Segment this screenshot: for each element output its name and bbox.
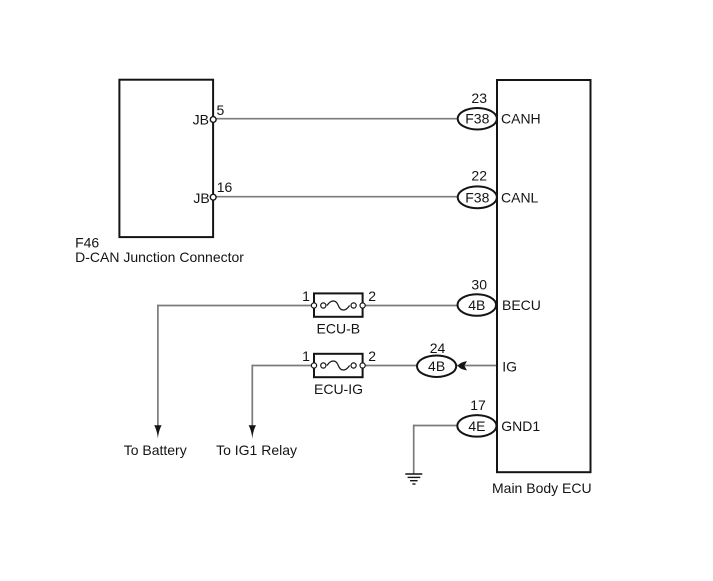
svg-text:F38: F38 <box>465 189 489 205</box>
svg-text:1: 1 <box>302 348 310 364</box>
svg-text:22: 22 <box>471 168 487 184</box>
svg-text:To Battery: To Battery <box>124 442 187 458</box>
svg-text:4B: 4B <box>428 358 445 374</box>
svg-text:Main Body ECU: Main Body ECU <box>492 480 592 496</box>
svg-text:IG: IG <box>502 358 517 374</box>
svg-text:To IG1 Relay: To IG1 Relay <box>216 442 297 458</box>
svg-text:4B: 4B <box>468 297 485 313</box>
svg-text:23: 23 <box>471 90 487 106</box>
svg-text:24: 24 <box>430 340 446 356</box>
svg-text:JB: JB <box>193 190 209 206</box>
svg-text:F38: F38 <box>465 111 489 127</box>
svg-text:16: 16 <box>217 179 233 195</box>
svg-text:BECU: BECU <box>502 297 541 313</box>
svg-text:2: 2 <box>368 288 376 304</box>
svg-text:ECU-IG: ECU-IG <box>314 381 363 397</box>
svg-text:2: 2 <box>368 348 376 364</box>
svg-text:GND1: GND1 <box>501 418 540 434</box>
svg-text:ECU-B: ECU-B <box>317 321 361 337</box>
svg-text:JB: JB <box>193 112 209 128</box>
svg-text:17: 17 <box>470 397 486 413</box>
svg-text:D-CAN Junction Connector: D-CAN Junction Connector <box>75 249 244 265</box>
svg-text:CANL: CANL <box>501 189 539 205</box>
svg-text:1: 1 <box>302 288 310 304</box>
svg-text:4E: 4E <box>468 418 485 434</box>
svg-text:30: 30 <box>471 277 487 293</box>
svg-text:CANH: CANH <box>501 111 541 127</box>
svg-text:5: 5 <box>217 102 225 118</box>
